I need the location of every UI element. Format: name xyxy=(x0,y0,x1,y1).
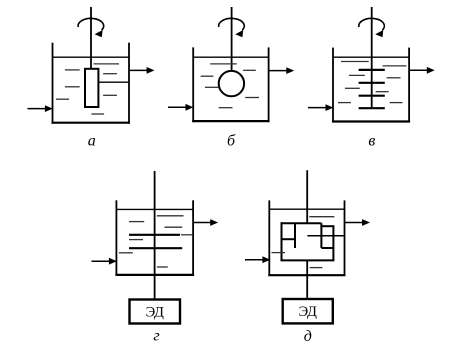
svg-text:г: г xyxy=(153,328,159,345)
svg-text:б: б xyxy=(227,132,236,149)
svg-text:д: д xyxy=(304,328,312,345)
svg-text:ЭД: ЭД xyxy=(299,304,317,320)
svg-text:а: а xyxy=(88,132,96,149)
svg-text:ЭД: ЭД xyxy=(146,305,164,321)
svg-text:в: в xyxy=(368,132,375,149)
